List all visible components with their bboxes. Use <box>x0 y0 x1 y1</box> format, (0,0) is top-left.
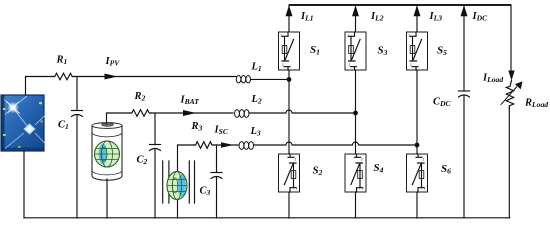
node C3 junction <box>216 145 218 173</box>
wire leg1 lower <box>288 192 290 218</box>
svg-text:IL1: IL1 <box>300 11 314 23</box>
inductor L2 <box>235 110 249 118</box>
battery BAT cylinder <box>92 123 122 181</box>
resistor RLoad variable <box>506 81 513 110</box>
capacitor C1 <box>72 111 83 219</box>
wire load branch upper <box>510 5 512 71</box>
current arrow IL2 <box>352 5 359 16</box>
svg-text:R1: R1 <box>56 55 68 67</box>
wire leg1 upper <box>288 5 290 32</box>
current arrow ILoad <box>508 71 514 81</box>
switch S6 <box>407 154 428 192</box>
svg-text:IBAT: IBAT <box>180 95 200 107</box>
switch S1 <box>279 32 300 70</box>
wire bottom return rail <box>24 217 510 219</box>
svg-text:L3: L3 <box>250 126 261 138</box>
wire R2 to inductor L2 <box>151 112 233 114</box>
supercapacitor SC electrodes <box>163 161 195 203</box>
svg-text:ILoad: ILoad <box>482 73 503 85</box>
node C2 junction <box>154 113 156 145</box>
current arrow IL1 <box>286 5 293 16</box>
wire L1 to leg 1 midpoint <box>251 78 290 80</box>
wire leg3 upper <box>416 5 418 32</box>
resistor R3 <box>194 142 214 149</box>
svg-text:IDC: IDC <box>472 11 489 23</box>
wire battery negative lead <box>106 179 108 218</box>
resistor R2 <box>130 110 151 117</box>
wire L3 to leg 3 midpoint with hops over leg1 and leg2 <box>254 142 418 145</box>
svg-text:C1: C1 <box>58 120 69 132</box>
svg-text:L1: L1 <box>251 62 262 74</box>
battery globe graphic <box>95 141 120 167</box>
wire battery positive lead <box>107 113 131 124</box>
svg-text:C3: C3 <box>200 186 211 198</box>
current arrow IPV <box>105 74 118 80</box>
supercapacitor SC sphere <box>167 172 187 200</box>
inductor L1 <box>236 76 250 83</box>
resistor R1 <box>53 73 74 80</box>
wire top DC bus rail <box>289 4 511 6</box>
wire PV rail to inductor L1 <box>74 76 236 78</box>
wire supercap to rail3 <box>178 145 195 218</box>
wire R3 to inductor L3 <box>214 144 239 146</box>
svg-text:IL3: IL3 <box>429 11 443 23</box>
svg-text:RLoad: RLoad <box>524 98 548 110</box>
current arrow IBAT <box>183 110 196 116</box>
node leg1 midpoint junction dot <box>287 77 292 82</box>
capacitor C3 <box>211 173 222 219</box>
current arrow IL3 <box>414 5 421 16</box>
capacitor C2 <box>150 145 161 219</box>
wire leg3 lower <box>416 192 418 218</box>
switch S2 <box>279 154 300 192</box>
svg-text:ISC: ISC <box>214 125 229 137</box>
wire PV negative lead <box>23 151 25 218</box>
inductor L3 <box>239 142 253 150</box>
switch S4 <box>345 154 366 192</box>
wire leg3 middle <box>416 70 418 154</box>
svg-text:IPV: IPV <box>105 56 121 68</box>
svg-text:C2: C2 <box>137 155 148 167</box>
wire leg2 middle <box>355 70 357 154</box>
svg-text:R3: R3 <box>191 121 203 133</box>
svg-text:IL2: IL2 <box>370 11 384 23</box>
PV panel source <box>1 95 47 151</box>
wire L2 to leg 2 midpoint with hop over leg1 <box>249 110 356 113</box>
wire leg1 middle <box>288 70 290 154</box>
node leg2 midpoint junction dot <box>353 111 358 116</box>
svg-text:CDC: CDC <box>433 97 451 109</box>
svg-text:R2: R2 <box>134 91 146 103</box>
svg-text:L2: L2 <box>251 94 262 106</box>
capacitor CDC <box>459 91 470 218</box>
current arrow IDC <box>461 5 468 16</box>
current arrow ISC <box>221 142 234 148</box>
wire load branch lower <box>508 107 510 218</box>
wire leg2 upper <box>355 5 357 32</box>
node C1 junction <box>76 77 78 111</box>
wire PV positive lead <box>26 77 54 96</box>
switch S5 <box>407 32 428 70</box>
wire leg2 lower <box>355 192 357 218</box>
arrow through RLoad <box>501 81 523 105</box>
node leg3 midpoint junction dot <box>415 143 420 148</box>
switch S3 <box>345 32 366 70</box>
wire DC-link branch upper <box>463 5 465 91</box>
